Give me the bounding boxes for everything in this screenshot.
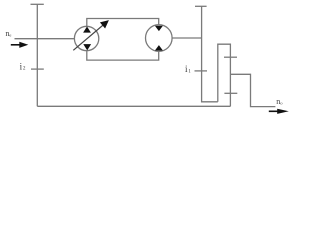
- gear tick upper on shaft S4: [224, 56, 237, 58]
- svg-text:i1: i1: [185, 64, 191, 74]
- svg-text:ne: ne: [5, 29, 11, 38]
- gear tick lower on shaft S4: [224, 92, 237, 94]
- input arrow n_e: [11, 42, 29, 48]
- shaft S3 (intermediate shaft U-loop): [218, 44, 231, 106]
- wire motor output line: [172, 37, 201, 39]
- bearing tick top of shaft S1: [31, 3, 44, 5]
- wire output connector: [231, 74, 276, 106]
- svg-text:i2: i2: [20, 61, 26, 71]
- wire bottom mechanical line: [37, 105, 230, 107]
- hydraulic loop rectangle top edge: [87, 19, 159, 27]
- gear tick i2 on shaft S1: [31, 68, 44, 70]
- wire input line n_e: [15, 38, 75, 40]
- gear tick i1 on shaft S2: [195, 70, 208, 72]
- output arrow n_o: [269, 109, 289, 114]
- motor bottom triangle (flow direction): [155, 45, 163, 50]
- motor top triangle (flow direction): [155, 26, 163, 31]
- svg-text:no: no: [276, 97, 283, 106]
- pump U1 circle (variable displacement pump): [74, 26, 98, 50]
- pump variable displacement arrow: [73, 20, 109, 50]
- hydraulic loop rectangle bottom edge: [87, 51, 159, 60]
- bearing tick top of shaft S2: [195, 5, 207, 7]
- motor U2 circle (hydraulic motor): [146, 25, 173, 52]
- pump top triangle (flow direction): [83, 27, 91, 33]
- shaft S1 (input shaft vertical): [36, 4, 38, 106]
- shaft S2 (right shaft vertical): [202, 6, 218, 102]
- pump bottom triangle (flow direction): [83, 44, 91, 50]
